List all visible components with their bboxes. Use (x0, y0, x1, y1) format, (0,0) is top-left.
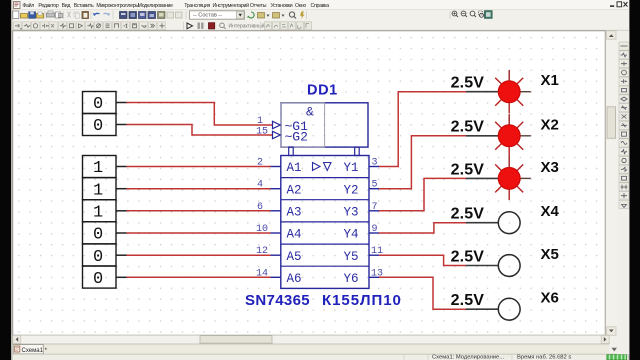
svg-text:Y3: Y3 (344, 206, 359, 220)
svg-text:Файл: Файл (22, 2, 34, 9)
row 1 cut/copy/paste (68, 12, 80, 19)
probe X2 (lit) (495, 114, 531, 157)
svg-text:Окно: Окно (295, 3, 306, 9)
wire net Y6 (379, 277, 466, 309)
row 1 print icons (47, 11, 64, 18)
wire net A4 (127, 232, 271, 234)
row 1 file icons (13, 11, 44, 19)
svg-text:X1: X1 (541, 72, 559, 89)
svg-text:1: 1 (93, 181, 103, 200)
svg-text:-- Состав --: -- Состав -- (193, 13, 222, 19)
pin stub S1 (116, 102, 127, 104)
svg-text:1: 1 (93, 159, 103, 178)
row 2 component icons (14, 22, 166, 30)
DD1 control block labels (285, 105, 315, 145)
simulation progress indicator (607, 355, 627, 360)
svg-text:A3: A3 (287, 206, 302, 220)
svg-text:14: 14 (256, 268, 268, 279)
DD1 right pin stubs (369, 167, 379, 278)
probe X3 (lit) (495, 157, 531, 200)
svg-text:DD1: DD1 (307, 83, 338, 99)
row 1 undo redo (94, 13, 100, 15)
logic source box S5 (value 1) (83, 200, 117, 223)
pin stub S2 (116, 124, 127, 126)
logic source box S6 (value 0) (83, 222, 117, 245)
wire net A5 (127, 254, 271, 256)
wire net Y5 (379, 255, 466, 265)
svg-text:1: 1 (93, 204, 103, 223)
probe X2 lead (466, 135, 498, 137)
svg-text:A6: A6 (287, 272, 302, 286)
pin stubs S3-S8 (116, 167, 127, 278)
row 1 zoom buttons (452, 11, 492, 19)
wire net Y4 (379, 223, 466, 233)
status bar (13, 354, 628, 360)
svg-text:X5: X5 (541, 246, 559, 263)
svg-text:Y6: Y6 (344, 272, 359, 286)
probe X1 lead (466, 91, 498, 93)
svg-text:9: 9 (372, 224, 378, 235)
wire net A1 (127, 166, 271, 168)
window controls (610, 2, 628, 7)
svg-text:X3: X3 (541, 159, 559, 176)
probe threshold labels 2.5V (451, 75, 485, 310)
row 1 design view icons (120, 12, 183, 19)
svg-text:Моделирование: Моделирование (138, 3, 174, 9)
svg-text:A5: A5 (287, 250, 302, 264)
svg-text:X6: X6 (541, 290, 559, 307)
probe reference designators X1-X6 (541, 72, 560, 307)
logic source box S3 (value 1) (83, 156, 117, 179)
wire net G2: S2 to DD1 pin 15 (127, 125, 273, 136)
buffer IC DD1 control block (281, 103, 368, 147)
svg-text:0: 0 (93, 95, 103, 114)
svg-text:0: 0 (93, 248, 103, 267)
svg-text:3: 3 (372, 158, 378, 169)
probe X1 (lit) (495, 70, 531, 113)
svg-text:Инструментарий: Инструментарий (213, 2, 250, 9)
right component toolbar (618, 31, 630, 354)
svg-text:Трансляция: Трансляция (184, 3, 210, 9)
svg-text:A4: A4 (287, 228, 302, 242)
svg-text:10: 10 (256, 224, 268, 235)
svg-text:2.5V: 2.5V (451, 292, 485, 309)
simulation controls (187, 23, 265, 30)
horizontal scrollbar (13, 335, 609, 343)
DD1 pin name labels (287, 161, 359, 286)
canvas (13, 31, 605, 335)
wire net A3 (127, 210, 271, 212)
svg-text:0: 0 (93, 270, 103, 289)
probe X5 lead (466, 265, 498, 267)
row 2 analysis icons (265, 22, 312, 30)
logic source box S7 (value 0) (83, 244, 117, 267)
menu bar (13, 0, 630, 10)
svg-text:2.5V: 2.5V (451, 75, 485, 92)
svg-text:1: 1 (257, 116, 263, 127)
app icon (14, 2, 21, 9)
wire net A2 (127, 188, 271, 190)
svg-text:Время наб. 26.682 s: Время наб. 26.682 s (517, 355, 571, 360)
svg-text:Вставить: Вставить (74, 3, 94, 9)
logic source box S8 (value 0) (83, 266, 117, 289)
svg-text:~G2: ~G2 (285, 130, 308, 145)
logic source box S2 (value 0) (83, 114, 117, 137)
svg-text:Микроконтроллеры: Микроконтроллеры (96, 3, 139, 9)
svg-text:Схема1: Моделирование...: Схема1: Моделирование... (432, 355, 504, 360)
svg-text:&: & (306, 105, 314, 120)
DD1 buffer symbols row 1 (313, 163, 321, 171)
svg-text:Y5: Y5 (344, 250, 359, 264)
svg-text:0: 0 (93, 226, 103, 245)
probe X4 (off) (498, 212, 520, 234)
svg-text:A1: A1 (287, 161, 302, 175)
in-use list combo (190, 11, 245, 19)
svg-text:6: 6 (257, 202, 263, 213)
svg-text:Y1: Y1 (344, 161, 359, 175)
svg-text:Интерактивный: Интерактивный (229, 23, 265, 30)
probe X6 (off) (498, 298, 520, 320)
DD1 main block (281, 156, 369, 289)
wire net A6 (127, 276, 271, 278)
DD1 pin numbers (256, 116, 383, 279)
toolbar row 2 (13, 21, 630, 31)
svg-text:X2: X2 (541, 116, 559, 133)
probe X5 (off) (498, 255, 520, 277)
svg-text:5: 5 (372, 180, 378, 191)
vertical scrollbar (607, 31, 616, 335)
probe X4 lead (466, 222, 498, 224)
svg-text:2.5V: 2.5V (451, 161, 485, 178)
DD1 input triangle pin 1 (273, 121, 281, 128)
probe X6 lead (466, 308, 498, 310)
row 1 icons after combo (247, 12, 304, 20)
wire net Y1 (379, 92, 466, 167)
svg-text:SN74365: SN74365 (245, 292, 310, 309)
svg-text:4: 4 (257, 180, 263, 191)
svg-text:Редактор: Редактор (38, 3, 58, 9)
svg-text:Установки: Установки (271, 3, 293, 9)
wire net G1: S1 to DD1 pin 1 (127, 103, 273, 126)
svg-text:Схема1 *: Схема1 * (22, 348, 48, 354)
svg-text:Отчеты: Отчеты (250, 3, 267, 9)
DD1 left pin stubs (271, 167, 281, 278)
svg-text:2.5V: 2.5V (451, 119, 485, 136)
DD1 input triangle pin 15 (273, 131, 281, 138)
svg-text:X4: X4 (541, 203, 560, 220)
svg-text:Y2: Y2 (344, 183, 359, 197)
logic source box S4 (value 1) (83, 178, 117, 201)
probe X3 lead (466, 177, 498, 179)
svg-text:Y4: Y4 (344, 228, 359, 242)
svg-text:2: 2 (257, 158, 263, 169)
svg-text:7: 7 (372, 202, 378, 213)
svg-text:Вид: Вид (62, 3, 71, 9)
svg-text:0: 0 (93, 117, 103, 136)
wire net Y2 (379, 136, 466, 189)
svg-text:К155ЛП10: К155ЛП10 (322, 292, 402, 309)
logic source box S1 (value 0) (83, 92, 117, 115)
svg-text:Справка: Справка (311, 3, 330, 9)
sheet tab bar (13, 344, 609, 354)
svg-text:A2: A2 (287, 183, 302, 197)
svg-text:15: 15 (256, 127, 268, 138)
toolbar row 1 (13, 10, 630, 21)
DD1 connector legs (289, 147, 360, 155)
DD1 row separators (281, 178, 369, 267)
svg-text:12: 12 (256, 246, 268, 257)
svg-text:2.5V: 2.5V (451, 248, 485, 265)
wire net Y3 (379, 178, 466, 210)
svg-text:2.5V: 2.5V (451, 206, 485, 223)
separators row1 (45, 11, 450, 19)
